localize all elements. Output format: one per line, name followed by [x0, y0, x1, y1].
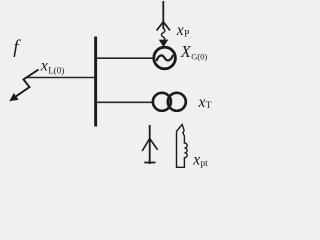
antenna arrow symbol (secondary side) [142, 125, 157, 164]
svg-text:xT: xT [198, 94, 212, 111]
system infeed chevron [157, 22, 170, 31]
svg-text:XG(0): XG(0) [180, 42, 208, 61]
generator G circle [154, 47, 176, 69]
transformer T winding 2 [168, 93, 186, 111]
generator sine symbol [157, 55, 174, 61]
fault lightning arrow at f [9, 70, 38, 102]
system infeed shaft (top) [162, 1, 164, 29]
wire bus to generator [96, 57, 154, 59]
transformer T winding 1 [153, 93, 171, 111]
system infeed arrowhead [159, 40, 169, 47]
system infeed squiggle [161, 28, 164, 41]
arrester / PT symbol x_pt [177, 124, 188, 167]
svg-text:xP: xP [176, 22, 190, 40]
wire line x_L(0) from fault to bus [25, 77, 95, 79]
svg-text:xpt: xpt [192, 151, 208, 169]
wire bus to transformer [96, 101, 154, 103]
bus B [94, 37, 97, 127]
svg-text:xL(0): xL(0) [40, 57, 65, 75]
svg-text:f: f [13, 37, 21, 58]
